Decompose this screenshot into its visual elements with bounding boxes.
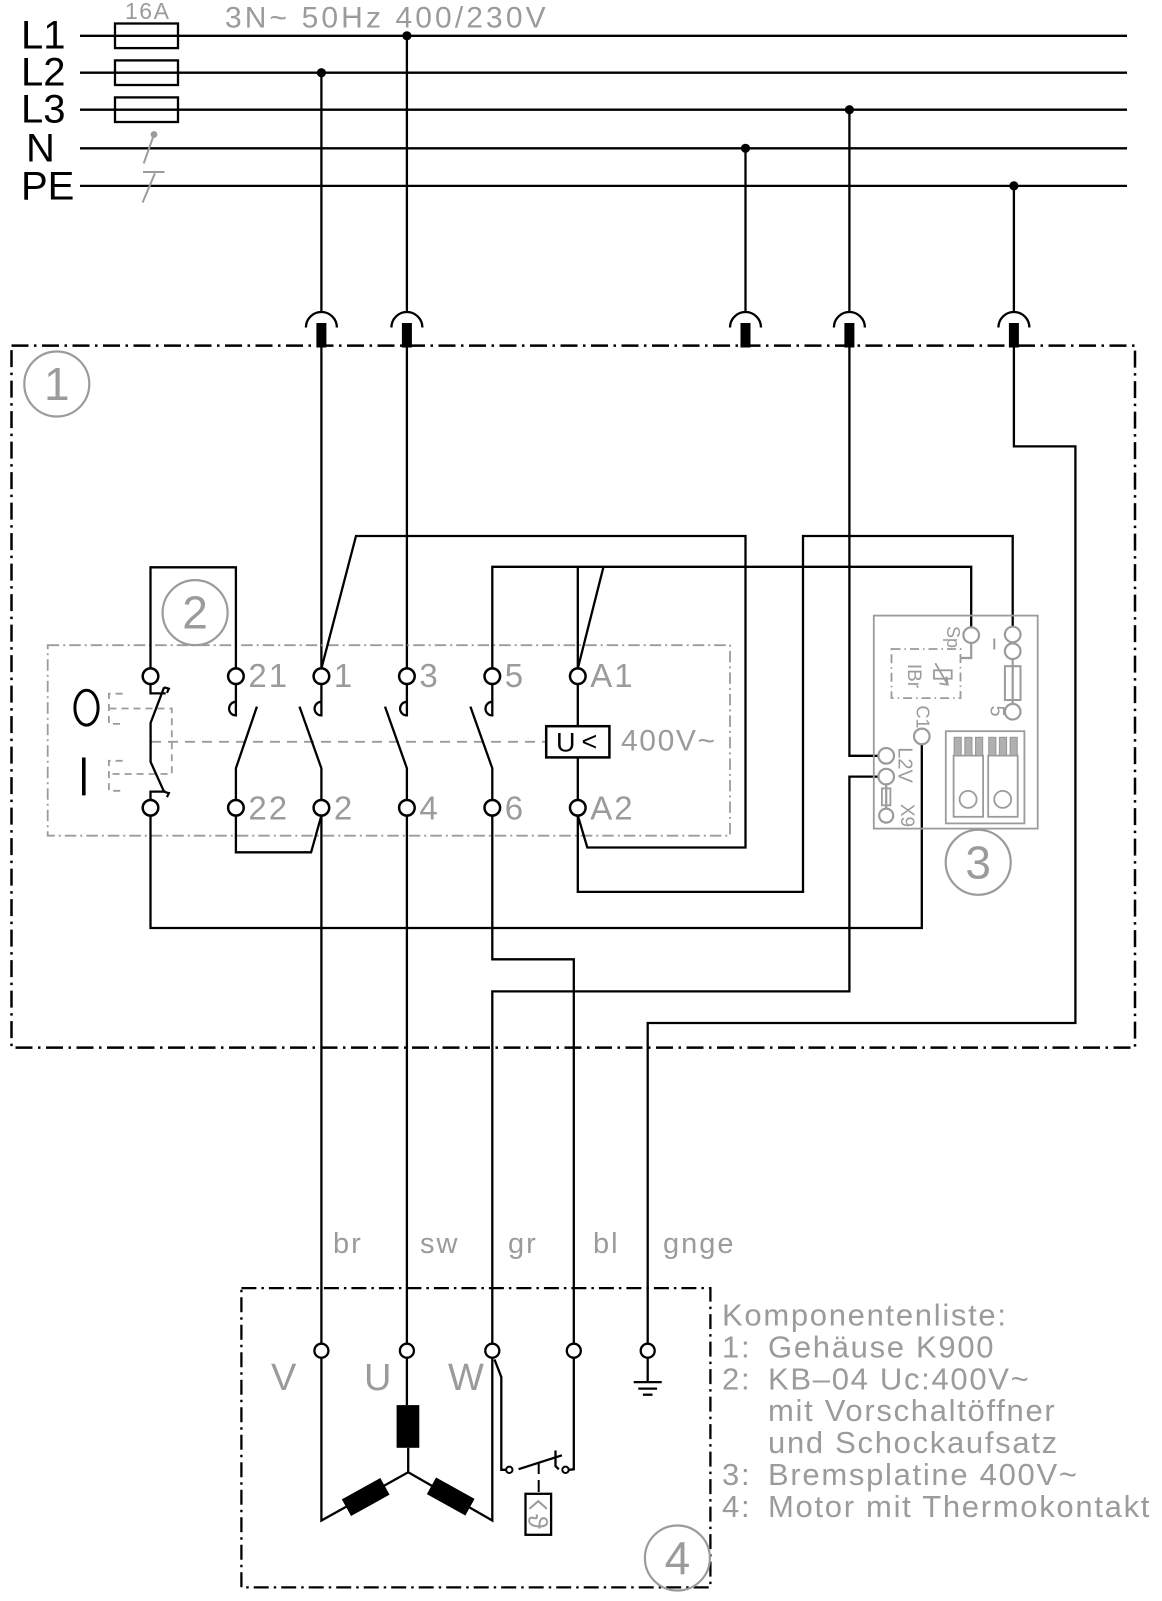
terminal circle bottom col 4 [485, 800, 501, 816]
connector plug at x=988.2 [988, 737, 1018, 816]
board terminal 5 [1005, 704, 1021, 720]
svg-text:und Schockaufsatz: und Schockaufsatz [768, 1425, 1059, 1460]
contact Vorschaltoeffner flag top [164, 687, 169, 693]
wire PE drop to gland [1013, 186, 1015, 312]
svg-text:6: 6 [505, 790, 525, 827]
wire bl to thermal contact [569, 1358, 574, 1470]
terminal circle bottom col 3 [399, 800, 415, 816]
svg-text:PE: PE [21, 165, 74, 209]
fuse 16A on L1 [115, 24, 178, 49]
board fuse lead [1012, 659, 1014, 704]
terminal circle top col 1 [228, 668, 244, 684]
svg-text:Bremsplatine 400V~: Bremsplatine 400V~ [768, 1457, 1079, 1492]
ground symbol (gnge) [634, 1358, 662, 1395]
contact 5-6 fixed stub + hook [485, 684, 492, 715]
thermal contact right pole [562, 1467, 568, 1473]
board fuse [1005, 666, 1021, 700]
motor terminal circle x=492.3 [485, 1344, 499, 1358]
wire brake board to motor W (gr) [492, 777, 878, 1344]
cable gland at x=406.9 [391, 312, 422, 348]
terminal circle bottom col 1 [228, 800, 244, 816]
svg-text:Motor mit Thermokontakt: Motor mit Thermokontakt [768, 1489, 1151, 1524]
wire net 5 / A1 / Sp [492, 567, 971, 669]
svg-text:A2: A2 [590, 790, 634, 827]
node L3 tap junction [845, 105, 854, 114]
svg-text:Sp: Sp [943, 626, 963, 648]
contact 1-2 fixed stub + hook [315, 684, 322, 715]
svg-text:U: U [556, 728, 576, 758]
callout circle 2 [163, 580, 228, 645]
svg-text:A1: A1 [590, 657, 634, 694]
fuse 16A on L2 [115, 60, 178, 85]
wire W leg [408, 1358, 492, 1521]
callout circle 3 [946, 830, 1011, 895]
svg-text:KB–04 Uc:400V~: KB–04 Uc:400V~ [768, 1361, 1031, 1396]
board terminal Sp [963, 627, 979, 643]
svg-text:1:: 1: [722, 1329, 751, 1364]
board X9 fuse [882, 788, 891, 805]
wire L1 drop to gland [406, 36, 408, 312]
svg-text:mit Vorschaltöffner: mit Vorschaltöffner [768, 1393, 1056, 1428]
wire link 22 to 2 [236, 816, 322, 853]
svg-text:1: 1 [334, 657, 354, 694]
motor terminal circle x=573.8 [567, 1344, 581, 1358]
IBr dashed box [892, 649, 961, 698]
svg-text:Gehäuse K900: Gehäuse K900 [768, 1329, 995, 1364]
svg-text:br: br [333, 1228, 363, 1260]
board X9 lead [885, 784, 887, 808]
thermal contact left pole [506, 1467, 512, 1473]
svg-text:V: V [271, 1357, 297, 1399]
contact 21-22 blade [236, 707, 257, 801]
wire 6 to motor (bl) [492, 816, 574, 1344]
node L1 tap junction [402, 31, 411, 40]
svg-text:16A: 16A [125, 0, 170, 24]
contact 21-22 fixed stub + hook [229, 684, 236, 715]
actuator linkage bracket upper [109, 694, 123, 724]
board terminals L2V [878, 748, 894, 764]
board terminal X9 [879, 809, 893, 823]
fuse 16A on L3 [115, 97, 178, 122]
contact 5-6 blade [470, 707, 492, 801]
svg-text:X9: X9 [896, 804, 917, 827]
cable gland at x=849.4 [834, 312, 865, 348]
bus line PE [80, 185, 1127, 187]
cable gland at x=321.4 [306, 312, 337, 348]
wire PE gland to motor ground (gnge) [648, 347, 1076, 1344]
winding V [342, 1478, 390, 1516]
svg-text:gr: gr [508, 1228, 538, 1260]
terminal circle top col 5 [570, 668, 586, 684]
button O (off) [75, 690, 98, 725]
svg-text:bl: bl [593, 1228, 620, 1260]
bus line L3 [80, 109, 1127, 111]
callout circle 4 [645, 1526, 710, 1591]
terminal circle top col 2 [314, 668, 330, 684]
motor terminal circle x=321.4 [314, 1344, 328, 1358]
connector block outline [946, 731, 1025, 823]
terminal circle top col 4 [485, 668, 501, 684]
svg-text:3:: 3: [722, 1457, 751, 1492]
enclosure box 1 (Gehaeuse K900) [12, 346, 1136, 1048]
button I (on) [82, 758, 86, 796]
wire 2 to motor V (br) [320, 816, 322, 1344]
wire net A2 to brake board minus [578, 536, 1013, 892]
svg-text:2: 2 [334, 790, 354, 827]
motor terminal circle x=406.9 [400, 1344, 414, 1358]
label minus [993, 639, 995, 650]
svg-text:U: U [364, 1357, 391, 1399]
svg-text:400V~: 400V~ [621, 725, 717, 758]
svg-text:IBr: IBr [903, 664, 924, 689]
node PE tap junction [1009, 181, 1018, 190]
wire C10 to Vorschaltoeffner [151, 744, 922, 928]
thermal contact blade [519, 1455, 562, 1469]
contact Vorschaltoeffner top stub and bar [151, 684, 166, 693]
wire bracket terminal to 21 [151, 567, 236, 668]
contact Vorschaltoeffner bottom bar and stub [151, 792, 166, 801]
svg-text:2: 2 [182, 587, 208, 639]
svg-text:22: 22 [248, 790, 289, 827]
node L2 tap junction [317, 68, 326, 77]
actuator linkage bracket lower [109, 761, 123, 791]
callout circle 1 [24, 352, 89, 417]
bus line L2 [80, 72, 1127, 74]
wire U terminal to winding [406, 1358, 408, 1405]
PE tap mark [143, 172, 165, 203]
mechanical linkage dashed line [151, 741, 546, 743]
terminal circle bottom col 5 [570, 800, 586, 816]
contact Vorschaltoeffner blade [151, 687, 165, 792]
cable gland at x=745.5 [730, 312, 761, 348]
contact 1-2 blade [300, 707, 322, 801]
bus line N [80, 147, 1127, 149]
cable gland at x=1013.9 [998, 312, 1029, 348]
svg-text:4: 4 [665, 1532, 691, 1584]
thermal contact fixed tick [556, 1451, 559, 1470]
wire N drop to gland [744, 148, 746, 311]
actuator linkage frame [110, 709, 172, 775]
winding U [397, 1405, 420, 1448]
svg-text:ϑ: ϑ [523, 1514, 553, 1529]
undervoltage release U< leads [577, 684, 579, 726]
brake board outline [874, 616, 1038, 829]
thermal sensor chevron [529, 1501, 547, 1509]
board terminal C10 [914, 729, 930, 745]
wire L2 gland to contact 1 [320, 347, 322, 669]
board terminal minus pair [1005, 627, 1021, 643]
svg-text:3N~ 50Hz 400/230V: 3N~ 50Hz 400/230V [225, 2, 549, 35]
wire 4 to motor U (sw) [406, 816, 408, 1344]
bus line L1 [80, 35, 1127, 37]
wire winding to star point [407, 1448, 409, 1473]
wire L2 drop to gland [320, 73, 322, 312]
wire L3 gland to brake board [849, 347, 878, 756]
svg-text:3: 3 [965, 836, 991, 888]
wire L3 drop to gland [848, 110, 850, 312]
svg-text:W: W [448, 1357, 484, 1399]
node N tap junction [741, 144, 750, 153]
svg-text:C1: C1 [913, 705, 933, 728]
terminal circle top col 0 [143, 668, 159, 684]
svg-text:Komponentenliste:: Komponentenliste: [722, 1298, 1008, 1333]
svg-text:4:: 4: [722, 1489, 751, 1524]
svg-text:3: 3 [419, 657, 439, 694]
thermal sensor linkage dashes [538, 1462, 540, 1494]
board wire Sp to IBr [961, 643, 972, 658]
thermal sensor box [526, 1494, 552, 1535]
terminal circle bottom col 0 [143, 800, 159, 816]
contact 3-4 blade [385, 707, 407, 801]
svg-text:<: < [582, 727, 598, 757]
wire V leg [321, 1358, 408, 1521]
svg-text:sw: sw [420, 1228, 459, 1260]
wire net contact1 to A2 (via 745) [321, 536, 745, 848]
component list (Komponentenliste) [722, 1298, 1151, 1524]
motor box 4 outline [241, 1288, 710, 1587]
wire vertical drop to A1 [577, 567, 579, 669]
svg-text:5: 5 [986, 705, 1008, 716]
svg-text:gnge: gnge [663, 1228, 736, 1260]
N tap mark [144, 131, 158, 163]
wire L1 gland to contact 3 [406, 347, 408, 669]
svg-text:1: 1 [44, 358, 70, 410]
motor terminal circle x=647.7 [641, 1344, 655, 1358]
svg-text:2:: 2: [722, 1361, 751, 1396]
connector plug at x=953.6 [954, 737, 984, 816]
terminal circle top col 3 [399, 668, 415, 684]
contact 3-4 fixed stub + hook [400, 684, 407, 715]
wire diagonal to A1 [578, 567, 604, 669]
undervoltage release U< box [546, 726, 609, 757]
switch block box 2 outline [48, 645, 730, 836]
contact Vorschaltoeffner flag bottom [164, 792, 169, 797]
winding W [427, 1478, 475, 1516]
svg-text:L2V: L2V [894, 747, 916, 783]
terminal circle bottom col 2 [314, 800, 330, 816]
wire W branch to thermal contact [495, 1360, 507, 1470]
brake magnet symbol [934, 663, 952, 685]
svg-text:4: 4 [419, 790, 439, 827]
svg-text:21: 21 [248, 657, 289, 694]
svg-text:L3: L3 [21, 88, 66, 132]
svg-text:5: 5 [505, 657, 525, 694]
